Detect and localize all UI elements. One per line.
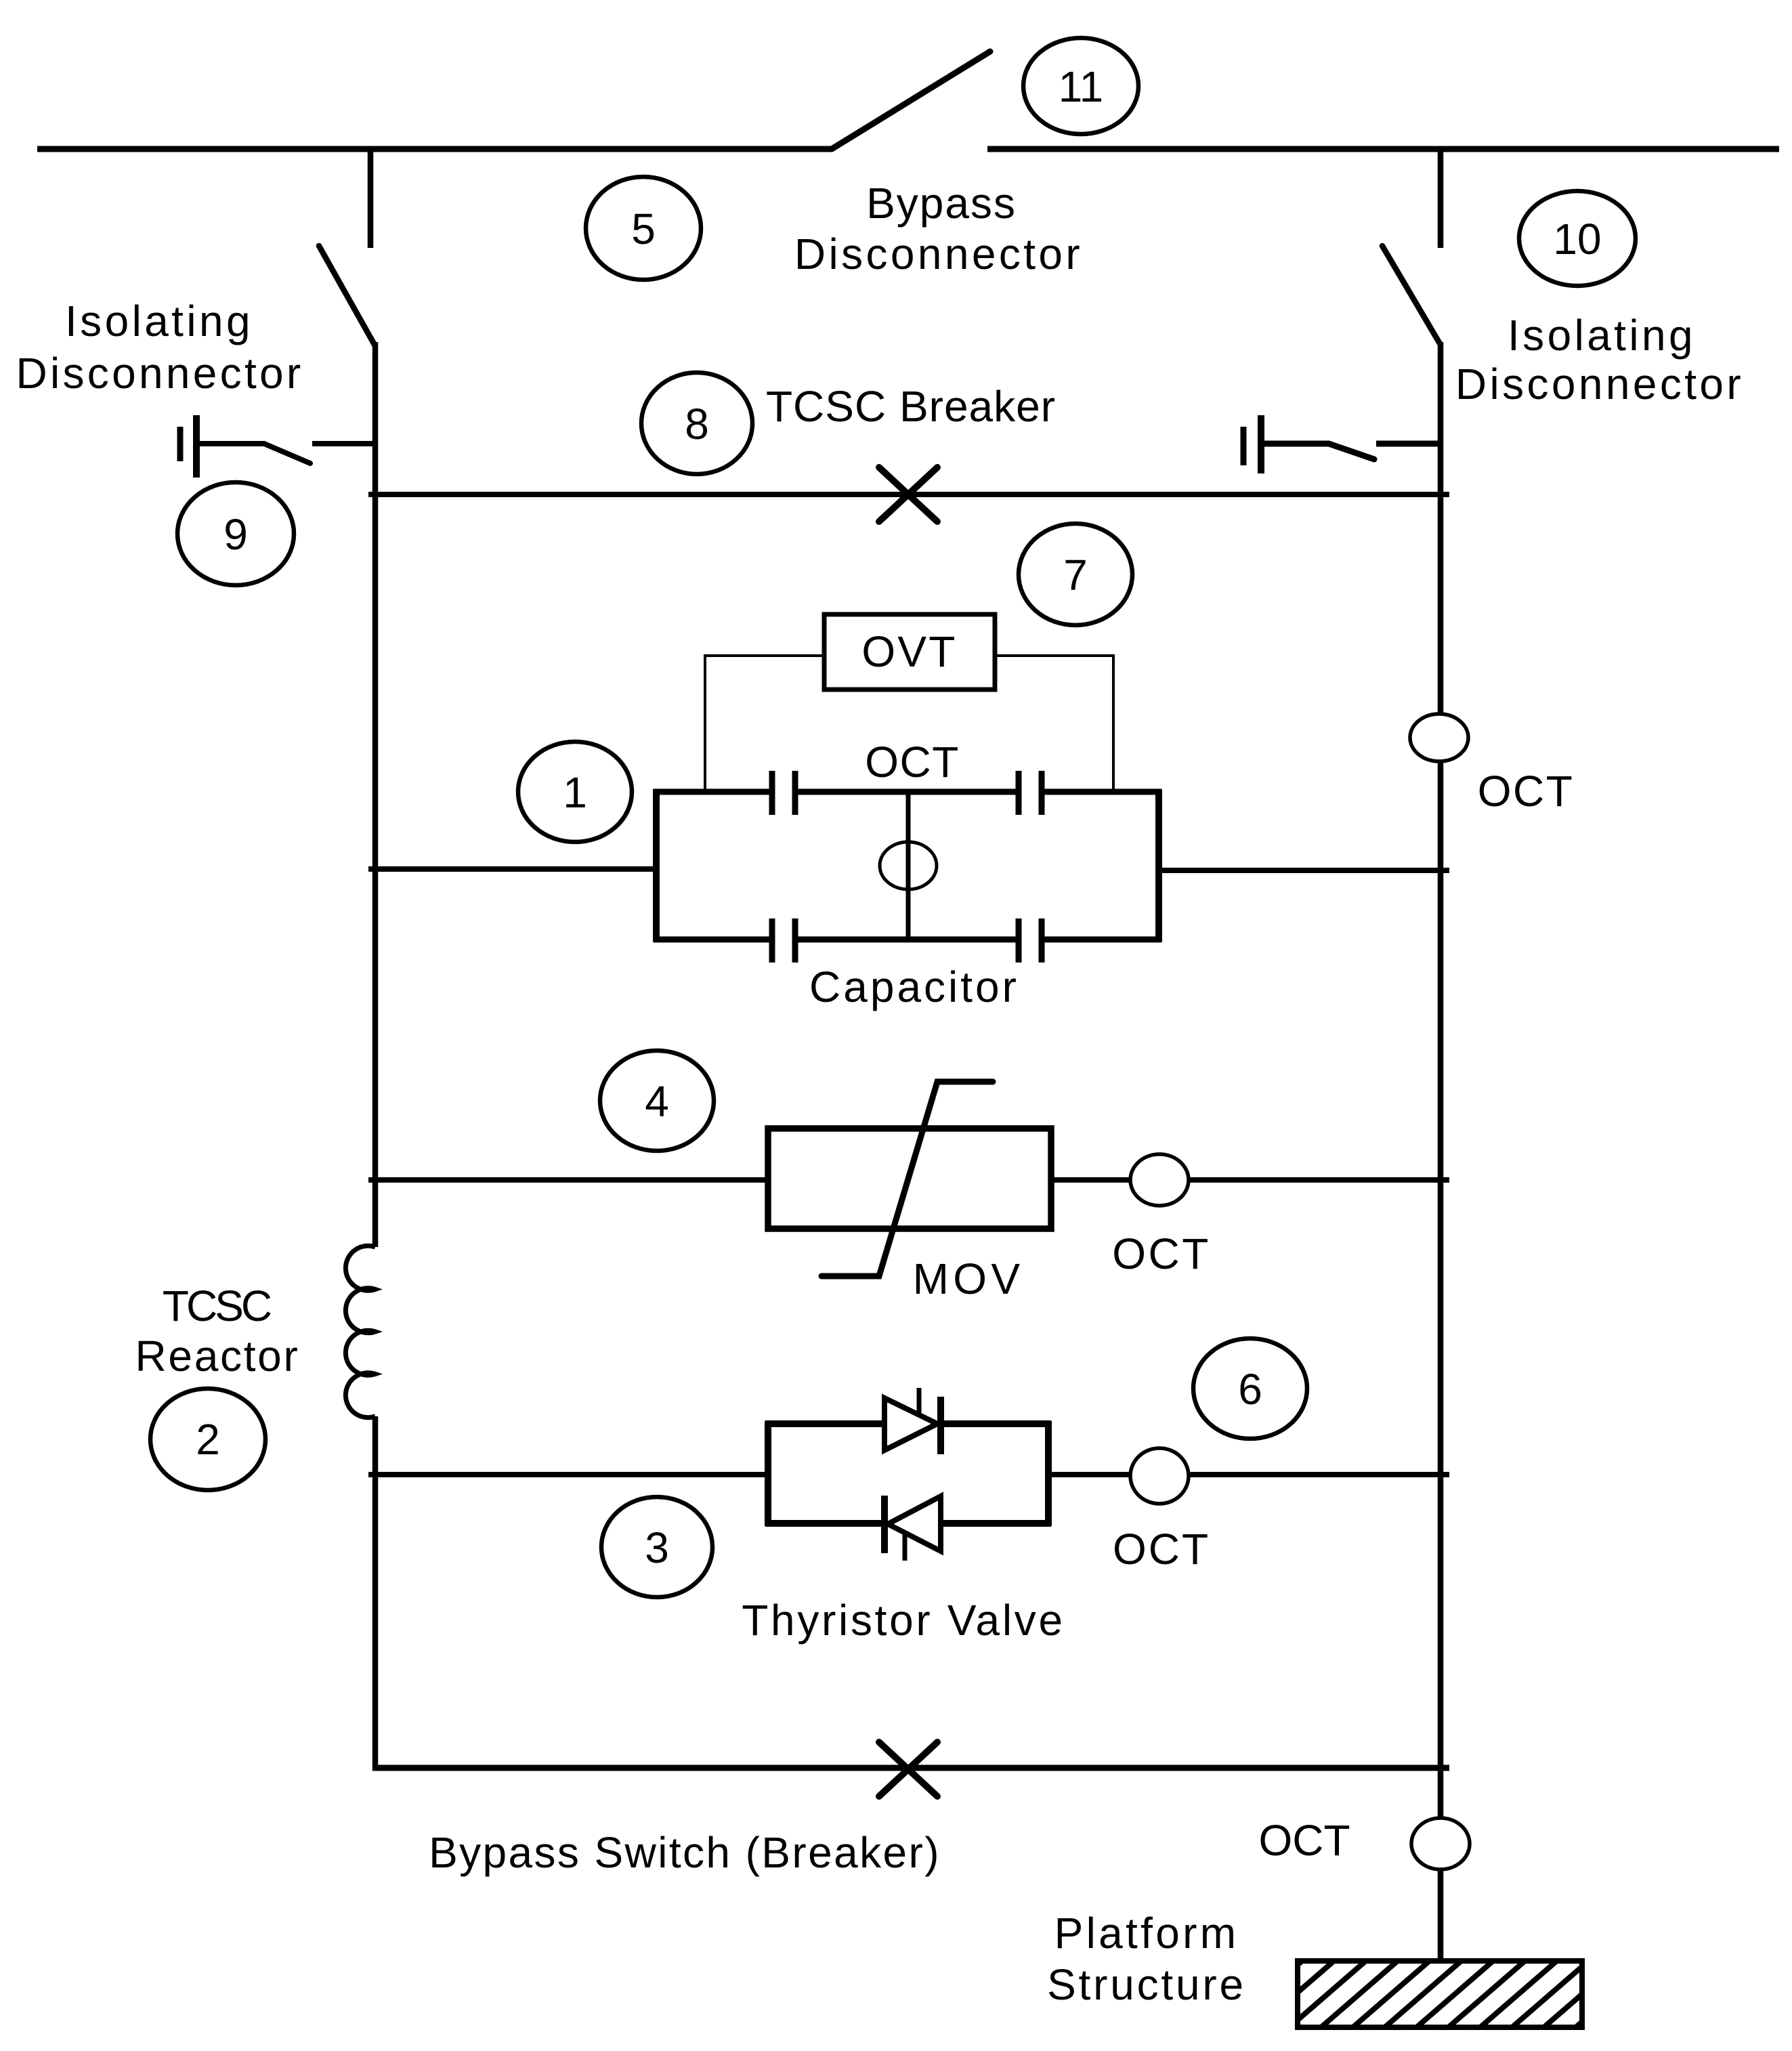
- node circle 9: [177, 482, 294, 585]
- thyristor T1 gate tick: [917, 1388, 922, 1413]
- label Isolating Disconnector (left): [16, 297, 303, 398]
- svg-text:Bypass: Bypass: [866, 179, 1017, 228]
- svg-text:TCSC Breaker: TCSC Breaker: [766, 382, 1056, 431]
- svg-text:Isolating: Isolating: [65, 297, 253, 345]
- wire: left drop stub from bus: [368, 149, 374, 248]
- label Platform Structure: [1047, 1909, 1246, 2009]
- earthing switch 9: ground bar short: [177, 427, 184, 461]
- svg-text:4: 4: [645, 1077, 669, 1126]
- wire: OVT left lead: [705, 656, 824, 789]
- isolating disconnector blade (left): [319, 246, 375, 345]
- label Isolating Disconnector (right): [1455, 311, 1744, 408]
- wire: capacitor mid branch: [906, 792, 911, 939]
- node circle 7: [1019, 524, 1132, 625]
- capacitor bank C1: left edge: [653, 789, 660, 942]
- svg-text:2: 2: [196, 1415, 220, 1464]
- thyristor valve box: bottom rail: [765, 1520, 1051, 1527]
- node circle 4: [600, 1051, 714, 1151]
- OCT sensor circle (bottom): [1411, 1818, 1470, 1869]
- capacitor bank C1: top edge segments: [654, 789, 1161, 795]
- wire: right vertical: [1438, 342, 1444, 1961]
- svg-text:OCT: OCT: [1113, 1525, 1210, 1573]
- platform structure ground block: [1212, 1951, 1664, 2039]
- svg-text:OCT: OCT: [1258, 1816, 1350, 1865]
- OCT sensor circle (right vertical): [1410, 714, 1468, 761]
- node circle 6: [1193, 1338, 1307, 1439]
- capacitor bank C1: bottom edge segments: [654, 937, 1161, 943]
- wire: MOV output to right vertical: [1189, 1177, 1449, 1183]
- wire: capacitor branch left: [368, 866, 656, 872]
- svg-text:6: 6: [1238, 1365, 1262, 1414]
- svg-text:3: 3: [645, 1523, 669, 1572]
- label Bypass Disconnector: [794, 179, 1083, 278]
- wire: thyristor output: [1051, 1472, 1130, 1477]
- node circle 5: [586, 177, 701, 280]
- svg-text:5: 5: [631, 205, 656, 253]
- svg-text:Capacitor: Capacitor: [809, 963, 1019, 1011]
- node circle 10: [1519, 191, 1636, 286]
- svg-text:11: 11: [1059, 62, 1103, 111]
- svg-text:Disconnector: Disconnector: [794, 230, 1083, 278]
- MOV box RV4: [768, 1128, 1051, 1229]
- wire: left vertical (upper): [372, 342, 379, 1247]
- bypass disconnector blade (on bus): [832, 51, 990, 149]
- earthing switch 10: fixed stub: [1376, 441, 1439, 447]
- svg-text:7: 7: [1063, 551, 1088, 599]
- wire: thyristor branch left: [368, 1472, 768, 1477]
- capacitor bank C1: bottom plates: [772, 918, 1042, 963]
- thyristor valve box: top rail: [765, 1420, 1051, 1427]
- svg-text:9: 9: [223, 510, 248, 559]
- label TCSC Reactor: [135, 1282, 300, 1380]
- thyristor valve box: right edge: [1045, 1421, 1052, 1526]
- reactor L2 coil: [345, 1246, 375, 1418]
- thyristor T2 triangle: [888, 1496, 941, 1551]
- svg-text:Thyristor Valve: Thyristor Valve: [742, 1596, 1065, 1645]
- earthing switch 9: ground bar tall: [193, 415, 200, 478]
- svg-text:8: 8: [685, 400, 709, 448]
- node circle 11: [1023, 38, 1138, 134]
- wire: top bus right segment: [987, 146, 1779, 152]
- svg-text:10: 10: [1553, 215, 1601, 263]
- wire: bypass switch branch: [372, 1765, 1449, 1771]
- svg-text:TCSC: TCSC: [163, 1282, 271, 1330]
- earthing switch 9: fixed stub: [312, 441, 375, 446]
- capacitor bank C1: top plates: [772, 771, 1042, 815]
- wire: top bus left segment: [37, 146, 832, 152]
- earthing switch 10: wire and blade: [1264, 444, 1374, 459]
- wire: left vertical (lower): [372, 1416, 379, 1771]
- svg-text:1: 1: [563, 768, 587, 817]
- node circle 2: [150, 1389, 265, 1490]
- wire: MOV branch left: [368, 1177, 768, 1183]
- OCT sensor circle (thyristor branch): [1130, 1448, 1189, 1504]
- svg-text:OCT: OCT: [1112, 1229, 1211, 1278]
- svg-text:OCT: OCT: [1478, 767, 1575, 816]
- thyristor T2 gate tick: [903, 1535, 908, 1561]
- wire: right drop stub from bus: [1438, 149, 1444, 248]
- wire: MOV output: [1051, 1177, 1130, 1183]
- svg-text:Platform: Platform: [1054, 1909, 1239, 1958]
- svg-text:MOV: MOV: [913, 1254, 1025, 1303]
- OCT sensor circle (capacitor mid): [880, 842, 937, 889]
- TCSC breaker X symbol: [879, 467, 937, 522]
- capacitor bank C1: right edge: [1155, 789, 1162, 942]
- thyristor T2 cathode bar: [881, 1496, 888, 1553]
- OCT sensor circle (MOV branch): [1130, 1154, 1189, 1206]
- thyristor T1 cathode bar: [937, 1397, 944, 1454]
- thyristor valve box: left edge: [765, 1421, 771, 1526]
- OVT box U7: [824, 614, 995, 690]
- svg-text:OCT: OCT: [865, 738, 960, 786]
- node circle 1: [518, 742, 632, 842]
- wire: thyristor output to right vertical: [1189, 1472, 1449, 1477]
- earthing switch 10: ground bar tall: [1258, 415, 1264, 473]
- wire: capacitor branch right: [1159, 868, 1449, 873]
- isolating disconnector blade (right): [1382, 246, 1441, 345]
- svg-text:Structure: Structure: [1047, 1960, 1246, 2009]
- svg-text:Isolating: Isolating: [1508, 311, 1696, 360]
- wire: TCSC breaker branch: [368, 492, 1449, 497]
- svg-text:Disconnector: Disconnector: [1455, 360, 1744, 408]
- MOV varistor stroke: [822, 1082, 993, 1276]
- earthing switch 10: ground bar short: [1241, 427, 1247, 465]
- wire: OVT right lead: [995, 656, 1113, 789]
- bypass switch X symbol: [879, 1742, 937, 1796]
- svg-text:Bypass Switch (Breaker): Bypass Switch (Breaker): [429, 1828, 941, 1877]
- svg-text:Disconnector: Disconnector: [16, 349, 303, 398]
- node circle 8: [641, 373, 752, 474]
- node circle 3: [601, 1497, 712, 1597]
- thyristor T1 triangle: [884, 1398, 937, 1450]
- svg-text:OVT: OVT: [861, 627, 957, 676]
- svg-text:Reactor: Reactor: [135, 1332, 300, 1380]
- earthing switch 9: wire and blade: [199, 444, 310, 463]
